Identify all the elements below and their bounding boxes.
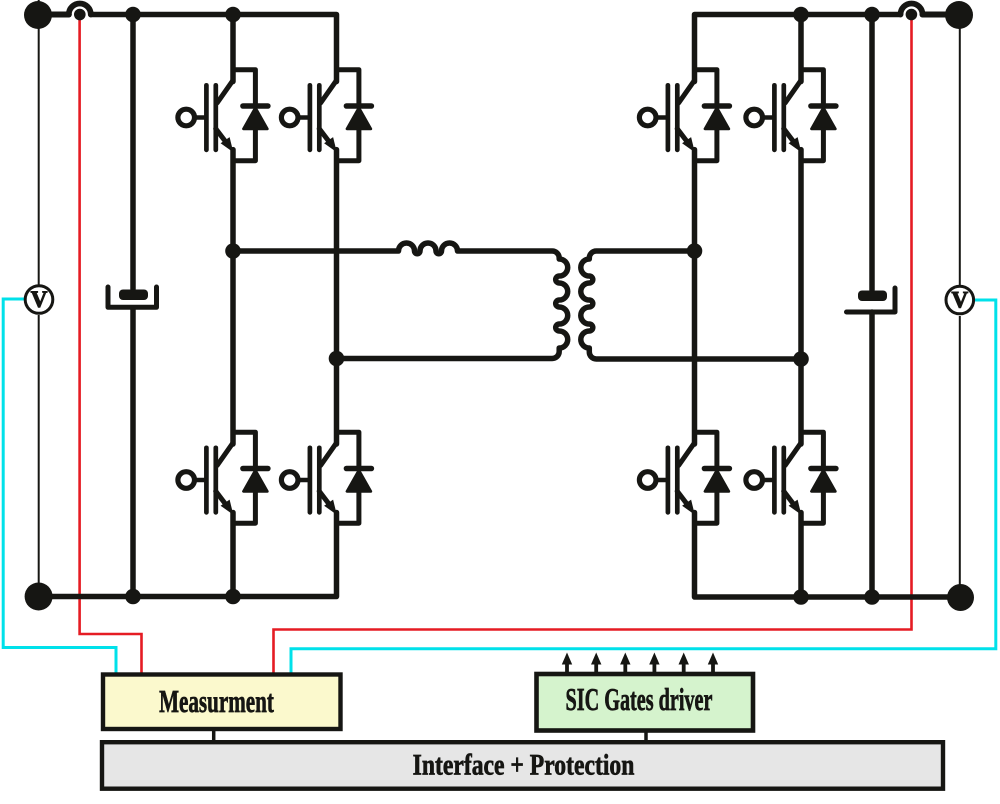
- svg-text:Interface + Protection: Interface + Protection: [413, 748, 635, 781]
- svg-text:V: V: [951, 288, 968, 313]
- svg-text:V: V: [31, 287, 48, 312]
- svg-text:Measurment: Measurment: [159, 684, 274, 719]
- svg-text:SIC Gates driver: SIC Gates driver: [566, 681, 713, 717]
